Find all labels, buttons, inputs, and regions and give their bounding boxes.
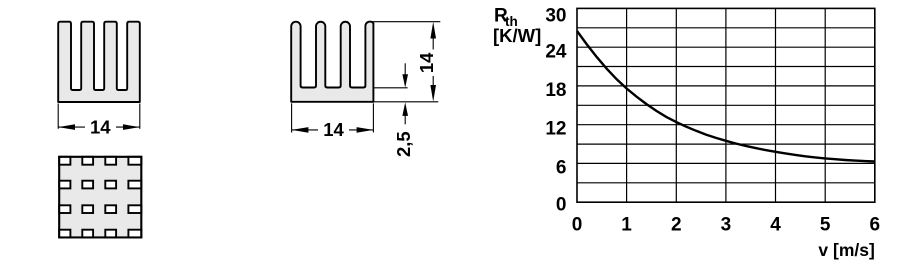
height dimension line upper segment xyxy=(432,30,434,50)
bottom view slot r1c3 xyxy=(105,157,116,165)
front view right extension line xyxy=(139,104,141,129)
chart gridline v 2 xyxy=(675,8,677,202)
svg-text:14: 14 xyxy=(90,116,111,137)
chart plot border xyxy=(577,8,875,202)
bottom view slot r3c1 xyxy=(59,205,70,213)
chart gridline h 21 xyxy=(577,66,875,68)
bottom view slot r2c3 xyxy=(105,181,116,189)
svg-text:4: 4 xyxy=(770,215,781,236)
chart gridline v 4 xyxy=(775,8,777,202)
side view width dimension line right segment xyxy=(349,129,373,131)
svg-text:v [m/s]: v [m/s] xyxy=(818,240,874,260)
svg-text:14: 14 xyxy=(323,119,344,140)
svg-text:3: 3 xyxy=(721,215,732,236)
svg-text:30: 30 xyxy=(545,6,566,27)
svg-text:0: 0 xyxy=(556,194,567,215)
svg-text:2: 2 xyxy=(671,215,682,236)
bottom view slot r2c1 xyxy=(59,181,70,189)
bottom view slot r2c4 xyxy=(128,181,141,189)
chart gridline h 9 xyxy=(577,143,875,145)
side view width dimension arrow right xyxy=(357,127,374,133)
bottom view slot r3c2 xyxy=(82,205,93,213)
svg-text:6: 6 xyxy=(870,215,881,236)
side view right extension line xyxy=(372,103,374,132)
side view left extension line xyxy=(291,103,293,132)
chart gridline h 18 xyxy=(577,85,875,87)
svg-text:14: 14 xyxy=(416,52,437,73)
front view dimension arrow right xyxy=(123,124,140,130)
base thickness lower arrow up xyxy=(402,102,408,116)
front view left extension line xyxy=(57,104,59,129)
bottom view slot r3c4 xyxy=(128,205,141,213)
chart gridline h 6 xyxy=(577,162,875,164)
bottom view slot r4c4 xyxy=(128,230,141,238)
base thickness upper leader line xyxy=(404,63,406,78)
svg-text:12: 12 xyxy=(545,119,566,140)
chart gridline h 15 xyxy=(577,104,875,106)
heatsink front view outline xyxy=(58,22,140,102)
svg-text:1: 1 xyxy=(621,215,632,236)
heatsink bottom view body xyxy=(59,157,141,238)
svg-text:24: 24 xyxy=(545,42,567,63)
svg-text:5: 5 xyxy=(820,215,831,236)
chart gridline h 24 xyxy=(577,46,875,48)
side view top extension line xyxy=(369,21,440,23)
heatsink side profile outline xyxy=(291,22,373,102)
base thickness upper arrow down xyxy=(402,74,408,88)
height dimension arrow down xyxy=(430,85,436,102)
side view base-bottom extension line xyxy=(373,101,438,103)
base thickness lower leader line xyxy=(404,110,406,124)
chart gridline h 12 xyxy=(577,124,875,126)
front view dimension arrow left xyxy=(58,124,75,130)
side view base-top extension line xyxy=(373,87,407,89)
chart gridline h 27 xyxy=(577,27,875,29)
bottom view outer border redraw xyxy=(59,157,141,238)
bottom view slot r4c2 xyxy=(82,230,93,238)
bottom view slot r3c3 xyxy=(105,205,116,213)
front view dimension line left segment xyxy=(58,126,85,128)
bottom view slot r2c2 xyxy=(82,181,93,189)
chart gridline v 3 xyxy=(725,8,727,202)
height dimension line lower segment xyxy=(432,76,434,95)
bottom view slot r1c2 xyxy=(82,157,93,165)
bottom view slot r1c1 xyxy=(59,157,70,165)
chart gridline v 1 xyxy=(626,8,628,202)
chart gridline h 3 xyxy=(577,182,875,184)
side view width dimension arrow left xyxy=(292,127,309,133)
front view dimension line right segment xyxy=(116,126,140,128)
chart curve Rth vs v xyxy=(577,31,875,162)
height dimension arrow up xyxy=(430,22,436,39)
chart gridline v 5 xyxy=(824,8,826,202)
bottom view slot r1c4 xyxy=(128,157,141,165)
svg-text:2,5: 2,5 xyxy=(393,131,414,157)
bottom view slot r4c1 xyxy=(59,230,70,238)
svg-text:[K/W]: [K/W] xyxy=(493,25,541,46)
svg-text:0: 0 xyxy=(572,215,583,236)
svg-text:18: 18 xyxy=(545,80,566,101)
side view width dimension line left segment xyxy=(292,129,318,131)
svg-text:6: 6 xyxy=(556,157,567,178)
bottom view slot r4c3 xyxy=(105,230,116,238)
